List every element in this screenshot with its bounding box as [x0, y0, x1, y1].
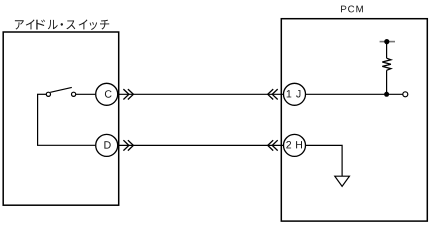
connector pin 2H	[284, 134, 306, 156]
wire: switch left leg vertical	[37, 94, 39, 145]
wire 1J to terminal	[306, 93, 403, 95]
wire C to 1J	[118, 93, 283, 95]
idle switch box	[3, 32, 119, 205]
label PCM	[341, 6, 363, 13]
wire power to resistor	[386, 42, 388, 59]
node junction dot	[384, 92, 389, 97]
connector pin C	[96, 83, 118, 105]
wire D to 2H	[118, 144, 283, 146]
chevrons >> at C	[123, 89, 133, 99]
power node dot	[384, 39, 389, 44]
switch blade	[50, 87, 72, 92]
wire 2H to ground	[306, 145, 342, 176]
ground symbol	[335, 176, 350, 186]
switch terminal circle right	[72, 92, 76, 96]
PCM box	[281, 19, 427, 221]
label アイドル・スイッチ (idle switch)	[15, 19, 109, 30]
open terminal	[403, 92, 408, 97]
wire: corner to switch terminal	[37, 93, 46, 95]
resistor	[382, 58, 391, 70]
chevrons << at 2H	[268, 140, 278, 150]
wire: left leg to D	[37, 144, 95, 146]
chevrons << at 1J	[268, 89, 278, 99]
power rail bar	[380, 41, 395, 43]
connector pin 1J	[284, 83, 306, 105]
wire: switch to C	[76, 93, 95, 95]
wire resistor to node	[386, 70, 388, 94]
chevrons >> at D	[123, 140, 133, 150]
switch terminal circle left	[46, 92, 50, 96]
connector pin D	[96, 134, 118, 156]
